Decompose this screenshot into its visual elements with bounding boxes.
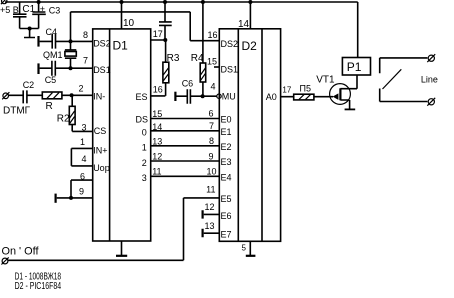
svg-text:11: 11 [206, 185, 215, 195]
svg-text:C5: C5 [45, 75, 57, 85]
svg-text:16: 16 [207, 30, 217, 40]
svg-text:13: 13 [204, 221, 214, 231]
svg-text:11: 11 [152, 167, 161, 177]
svg-text:9: 9 [208, 151, 213, 161]
svg-text:C6: C6 [182, 79, 194, 89]
svg-text:E1: E1 [221, 127, 232, 137]
svg-text:П5: П5 [300, 84, 311, 94]
svg-text:D1: D1 [113, 39, 129, 53]
svg-text:10: 10 [206, 167, 216, 177]
svg-text:DTMГ: DTMГ [3, 106, 31, 117]
svg-text:R: R [46, 101, 53, 112]
svg-text:Uop: Uop [93, 163, 110, 173]
svg-text:4: 4 [81, 154, 86, 164]
svg-text:17: 17 [153, 29, 163, 39]
svg-text:5: 5 [242, 244, 247, 253]
svg-text:+5 В: +5 В [0, 5, 19, 15]
svg-text:14: 14 [238, 19, 250, 30]
svg-text:14: 14 [152, 122, 162, 132]
svg-text:C2: C2 [23, 80, 35, 90]
svg-text:CS: CS [94, 126, 107, 136]
svg-text:10: 10 [123, 18, 135, 29]
svg-text:IN-: IN- [93, 92, 105, 102]
svg-text:DS2: DS2 [93, 39, 111, 49]
svg-text:P1: P1 [347, 60, 362, 74]
svg-text:E7: E7 [221, 230, 232, 240]
svg-text:1: 1 [80, 137, 85, 147]
svg-text:7: 7 [209, 121, 214, 131]
svg-text:8: 8 [83, 30, 88, 40]
svg-text:3: 3 [81, 123, 86, 133]
svg-text:15: 15 [207, 57, 217, 67]
svg-text:IN+: IN+ [93, 146, 107, 156]
svg-text:8: 8 [209, 136, 214, 146]
svg-text:13: 13 [152, 137, 162, 147]
svg-text:C3: C3 [49, 6, 61, 16]
svg-text:R3: R3 [167, 53, 180, 64]
svg-text:3: 3 [142, 173, 147, 183]
svg-text:6: 6 [80, 171, 85, 181]
svg-text:Line: Line [421, 75, 438, 85]
svg-text:E6: E6 [221, 211, 232, 221]
svg-text:D2: D2 [242, 39, 258, 53]
svg-text:E3: E3 [221, 157, 232, 167]
svg-text:E0: E0 [221, 115, 232, 125]
svg-text:12: 12 [152, 152, 162, 162]
svg-text:DS1: DS1 [221, 65, 239, 75]
svg-text:DS: DS [136, 115, 149, 125]
svg-text:C1: C1 [22, 4, 35, 15]
svg-text:VT1: VT1 [316, 75, 335, 86]
svg-text:15: 15 [152, 109, 162, 119]
svg-text:E4: E4 [221, 173, 232, 183]
svg-text:DS2: DS2 [221, 39, 239, 49]
svg-text:E5: E5 [221, 194, 232, 204]
svg-text:9: 9 [79, 186, 84, 196]
svg-text:MU: MU [222, 92, 236, 102]
svg-text:R2: R2 [57, 114, 70, 125]
svg-text:17: 17 [282, 86, 291, 95]
svg-text:6: 6 [208, 109, 213, 119]
svg-text:2: 2 [78, 83, 83, 93]
svg-text:+: + [40, 4, 45, 14]
svg-text:C4: C4 [46, 27, 58, 37]
svg-text:QM1: QM1 [43, 50, 63, 60]
svg-text:On ' Off: On ' Off [2, 246, 40, 258]
svg-text:R4: R4 [191, 53, 204, 64]
svg-text:16: 16 [153, 85, 163, 95]
svg-text:2: 2 [142, 158, 147, 168]
svg-text:0: 0 [142, 128, 147, 138]
svg-text:D2 - PIC16F84: D2 - PIC16F84 [15, 281, 62, 292]
svg-text:1: 1 [142, 143, 147, 153]
svg-text:DS1: DS1 [93, 65, 111, 75]
svg-text:E2: E2 [221, 142, 232, 152]
svg-text:7: 7 [83, 56, 88, 66]
svg-text:12: 12 [204, 202, 214, 212]
svg-text:4: 4 [210, 82, 215, 92]
svg-text:ES: ES [136, 92, 148, 102]
svg-text:A0: A0 [266, 92, 277, 102]
